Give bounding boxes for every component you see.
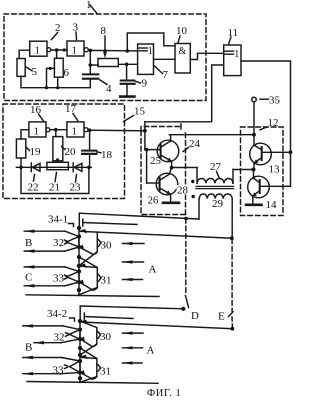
label 34-2 (47, 308, 75, 321)
wire block7 out to block10 (154, 58, 176, 60)
svg-text:1: 1 (148, 46, 153, 57)
thyristor 31' rail and links (80, 355, 97, 383)
transformer winding 29 (199, 194, 232, 238)
capacitor C9 (121, 81, 135, 96)
svg-text:10: 10 (176, 25, 188, 37)
wire block2 input from resistor 5 (19, 50, 30, 58)
label 6 (64, 67, 70, 79)
label 7 (155, 66, 169, 81)
wire R19 bottom (20, 158, 22, 167)
inverter block 3 (67, 41, 88, 56)
svg-text:17: 17 (65, 103, 77, 115)
svg-text:5: 5 (32, 66, 38, 78)
diode VD22 (31, 163, 40, 172)
rheostat 8 body (98, 59, 118, 67)
cap18 top lead (89, 130, 91, 150)
svg-text:1: 1 (35, 45, 41, 57)
label 35 (260, 95, 281, 107)
optocoupler block 34-2 (78, 319, 82, 383)
svg-text:6: 6 (64, 67, 70, 79)
label 16 (30, 104, 44, 121)
potentiometer R21 (47, 162, 69, 169)
label 31' (98, 365, 111, 378)
svg-text:30: 30 (101, 240, 113, 252)
label 2 (52, 22, 61, 40)
node dot cap4 branch (89, 49, 93, 53)
resistor R6 (54, 58, 63, 77)
svg-text:18: 18 (101, 149, 113, 161)
svg-text:16: 16 (30, 104, 42, 116)
optocoupler block 34-1 (77, 226, 81, 295)
resistor R19 (16, 139, 25, 158)
dashed linkage to switch E (218, 239, 233, 327)
XOR block 7 (138, 44, 154, 74)
phase lines (34-2 upper pair) (23, 324, 80, 344)
cap9 top lead (126, 64, 128, 80)
LED 32' triangle (70, 330, 81, 340)
svg-text:9: 9 (142, 78, 148, 90)
label 28 (177, 185, 190, 195)
svg-text:8: 8 (101, 25, 107, 37)
rheostat arrow from label 8 (103, 36, 107, 58)
resistor R20 (53, 137, 63, 161)
ground (Q26) (163, 202, 179, 205)
polarity dot upper (191, 180, 194, 183)
transistor Q25 (157, 140, 179, 162)
svg-text:14: 14 (266, 199, 278, 211)
transistor Q26 (156, 173, 178, 195)
dashed box 12 (output stage) (241, 127, 284, 216)
diode VD23 (73, 163, 82, 172)
label 15 (124, 106, 146, 122)
svg-text:1: 1 (34, 125, 40, 137)
label 17 (65, 103, 78, 121)
svg-text:33: 33 (53, 273, 65, 285)
wire R6 top lead (56, 50, 58, 58)
polarity dot lower (192, 195, 195, 198)
switch D terminal (181, 307, 199, 322)
bottom wire of box15 with diodes (16, 166, 91, 168)
label 31 (98, 275, 111, 287)
svg-text:11: 11 (228, 27, 239, 39)
svg-text:7: 7 (163, 69, 169, 81)
svg-text:34-1: 34-1 (48, 214, 68, 226)
wire block2 out to block3 in (51, 49, 67, 51)
svg-text:15: 15 (134, 106, 146, 118)
phase B output lines (24, 230, 79, 253)
wire winding27 right to output node (233, 169, 254, 171)
svg-text:B: B (25, 342, 32, 354)
phase A arrows (34-2) (123, 332, 144, 365)
ground (Q14) (246, 204, 262, 207)
Q14 collector from node (253, 170, 255, 179)
node dot base 13 on right rail (289, 150, 293, 154)
feedback staircase wire to AND gate (126, 33, 176, 53)
Q26 emitter to ground (170, 194, 172, 202)
label 8 (101, 25, 107, 37)
LED 33' triangle (70, 361, 81, 373)
svg-text:34-2: 34-2 (47, 308, 67, 320)
svg-text:33: 33 (53, 365, 65, 377)
thyristor 30' rail and links (80, 321, 97, 347)
label 18 (97, 149, 113, 161)
svg-text:25: 25 (150, 155, 162, 167)
label 20 (62, 146, 77, 158)
34-2 bottom common wire (27, 382, 158, 384)
phase C output lines (24, 265, 79, 287)
label 12 (260, 117, 279, 130)
label 34-1 (48, 214, 74, 227)
label 1 (86, 0, 97, 14)
svg-text:C: C (25, 272, 32, 284)
svg-text:30: 30 (100, 331, 112, 343)
capacitor C18 (82, 151, 96, 168)
svg-text:31: 31 (100, 366, 111, 378)
phase lines (34-2 lower pair) (23, 356, 80, 376)
sloped wire from 34-1 node to E junction (80, 229, 234, 240)
inverter block 16 (29, 122, 50, 137)
label 30' (98, 331, 112, 343)
svg-text:20: 20 (65, 146, 77, 158)
transformer winding 27 (197, 168, 233, 184)
node dot cap18 (88, 128, 92, 132)
transformer core 28 (196, 186, 234, 188)
block11 lower input feedback wire (145, 65, 224, 122)
svg-text:24: 24 (189, 138, 201, 150)
wire block17 out to right (88, 129, 145, 132)
svg-text:32: 32 (53, 237, 64, 249)
wire R6 bottom lead (57, 77, 59, 88)
node dot cap9 (125, 63, 129, 67)
cross links between halves (34-2) (80, 344, 97, 359)
node dot at block3 input (63, 48, 66, 51)
transistor Q13 (250, 143, 291, 165)
svg-text:A: A (147, 345, 155, 357)
label 23 (70, 175, 82, 194)
svg-text:28: 28 (177, 185, 189, 197)
label 30 (98, 240, 112, 252)
wire block3 out to block7 (88, 49, 137, 52)
svg-text:31: 31 (101, 275, 112, 287)
svg-text:29: 29 (212, 198, 224, 210)
collector supply wire to box12 node (169, 134, 254, 136)
svg-text:19: 19 (30, 146, 42, 158)
node 35 terminal (252, 97, 257, 145)
inverter block 17 (67, 122, 88, 137)
svg-text:22: 22 (28, 182, 39, 194)
svg-text:26: 26 (148, 195, 160, 207)
dashed box 24 (driver stage) (141, 124, 186, 215)
svg-text:&: & (179, 46, 187, 57)
svg-text:35: 35 (269, 95, 281, 107)
phase A arrows (34-1) (123, 242, 145, 281)
svg-text:D: D (191, 310, 199, 322)
thyristor 31 rail and links (79, 264, 97, 295)
label 33 (53, 273, 68, 285)
LED 32 triangle (67, 237, 80, 248)
label 19 (26, 146, 41, 158)
label 27 (210, 161, 222, 179)
wire node to rheostat left end (90, 64, 98, 66)
svg-text:A: A (149, 264, 157, 276)
R20 top lead (55, 130, 57, 137)
label 9 (135, 78, 148, 90)
wire block10 out jog to block11 (190, 53, 223, 59)
label 5 (25, 66, 37, 78)
thyristor 30 rail and links (79, 232, 97, 254)
wire down to cap4 / rheostat node (89, 50, 91, 73)
inverter block 2 (30, 41, 51, 56)
XOR block 11 (224, 45, 241, 76)
wire1: 34-1 top feed from winding 29 (79, 213, 199, 228)
label 4 (100, 80, 112, 95)
cross links between halves (79, 252, 97, 268)
D feed wire to 34-2 (80, 306, 183, 321)
label 33' (53, 365, 68, 377)
U-loop wire under diode row (21, 167, 89, 193)
ground (under C9) (120, 95, 134, 98)
Q13 emitter down to mid node (253, 163, 255, 169)
wire node28 to winding 27 left (172, 167, 197, 169)
label 22 (28, 175, 39, 194)
node dot between Q25/Q26 (170, 166, 174, 170)
AND block 10 (175, 44, 190, 74)
wire block16 out to block17 (50, 129, 67, 131)
label 3 (73, 22, 79, 40)
wire block16 input from R19 (21, 130, 29, 139)
junction of box15 output: vertical to feedback and driver bases (143, 122, 147, 150)
dashed box 1 (pulse generator unit) (4, 14, 206, 101)
wire rheostat right to block7 lower input (118, 63, 137, 65)
block11 output wire to right rail (241, 61, 291, 186)
node dot R20 top (54, 128, 58, 132)
svg-text:E: E (218, 311, 225, 323)
label 32' (54, 332, 69, 344)
svg-text:12: 12 (268, 117, 279, 129)
label 11 (228, 27, 239, 45)
label 10 (176, 25, 188, 43)
R20 bottom lead arrow onto R21 (56, 159, 60, 163)
svg-text:13: 13 (269, 164, 281, 176)
Q26 collector wire up to node (170, 168, 172, 175)
wire to bases of Q25/Q26 (145, 148, 161, 183)
svg-text:23: 23 (70, 182, 82, 194)
Q25 emitter to node 28-wire (171, 161, 173, 167)
svg-text:21: 21 (49, 182, 60, 194)
34-1 bottom common wire (26, 295, 159, 297)
capacitor C4 (83, 74, 98, 87)
contact tick wire2 (34-1) (83, 219, 137, 226)
resistor R5 (17, 59, 25, 77)
svg-text:B: B (25, 237, 32, 249)
svg-text:1: 1 (234, 49, 239, 60)
node column (78, 228, 80, 295)
LED 33 triangle (67, 272, 80, 283)
label 24 (183, 138, 201, 152)
Q14 emitter to ground (252, 196, 254, 204)
node dot between Q13/Q14 (252, 168, 256, 172)
label 21 (49, 173, 60, 194)
label 32 (53, 237, 68, 249)
node dot at R6 top (55, 48, 59, 52)
Q25 collector wire up (170, 135, 172, 141)
contact tick wire2 (34-2) (84, 313, 133, 320)
dashed box 15 (second generator) (3, 104, 125, 199)
svg-text:1: 1 (72, 125, 78, 137)
sloped wire from 34-2 node to E terminal (81, 320, 235, 331)
wire R5 bottom to rail (21, 76, 90, 87)
svg-text:ФИГ. 1: ФИГ. 1 (147, 388, 181, 399)
dashed linkage to switch D (185, 219, 188, 308)
svg-text:1: 1 (72, 44, 78, 56)
R6 side tap wire (45, 67, 55, 89)
transistor Q14 (248, 176, 291, 198)
